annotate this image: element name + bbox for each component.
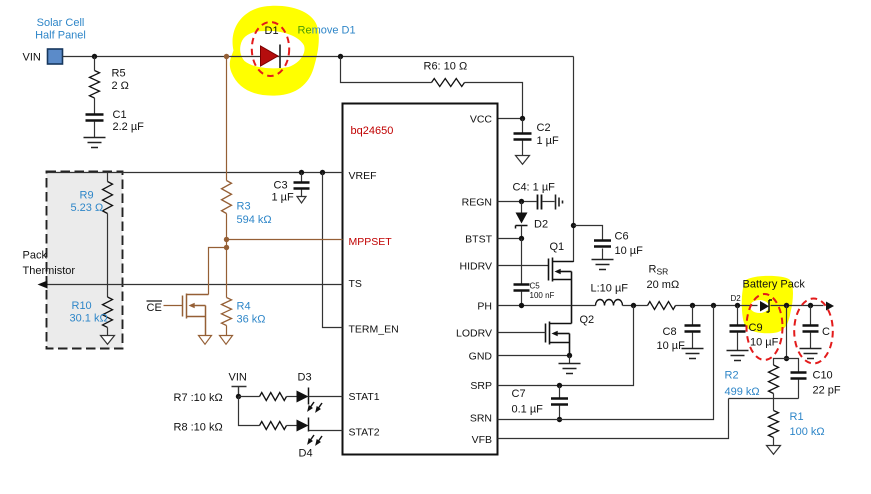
wire HIDRV pin <box>498 265 549 267</box>
capacitor C6 <box>574 226 603 241</box>
node junction dot MPPSET <box>224 237 229 242</box>
svg-text:STAT2: STAT2 <box>349 427 380 439</box>
svg-text:Solar Cell: Solar Cell <box>37 17 85 29</box>
wire TERM_EN pullup riser <box>323 173 343 328</box>
node junction dot at R3 tap (brown) <box>224 54 229 59</box>
wire VFB pin <box>498 399 729 439</box>
svg-text:LODRV: LODRV <box>456 327 492 339</box>
resistor R3 (brown) <box>226 57 228 181</box>
svg-text:Q1: Q1 <box>550 241 565 253</box>
svg-text:Pack: Pack <box>23 250 48 262</box>
svg-text:HIDRV: HIDRV <box>460 260 492 272</box>
resistor R6 <box>341 57 432 83</box>
svg-text:STAT1: STAT1 <box>349 391 380 403</box>
node junction dot battery/R2 tap <box>784 303 789 308</box>
svg-text:R4: R4 <box>237 301 251 313</box>
svg-text:30.1 kΩ: 30.1 kΩ <box>70 313 108 325</box>
node junction dot VIN stub <box>236 394 241 399</box>
capacitor C4 <box>538 195 542 210</box>
diode D2 (bootstrap) <box>521 202 523 213</box>
capacitor C8 <box>692 306 694 326</box>
wire to R4 (brown) <box>226 248 228 298</box>
svg-text:100 kΩ: 100 kΩ <box>790 426 825 438</box>
wire GND pin <box>498 355 570 357</box>
svg-text:D1: D1 <box>265 25 279 37</box>
node junction dot CE branch <box>224 245 229 250</box>
wire to CE FET drain (brown) <box>209 248 227 295</box>
svg-text:Q2: Q2 <box>580 314 595 326</box>
svg-text:R10: R10 <box>72 300 92 312</box>
resistor RSR 20 mOhm <box>648 302 676 310</box>
ground below CE FET (brown triangle) <box>199 336 212 345</box>
wire MPPSET pin (brown) <box>227 239 343 241</box>
svg-text:D2: D2 <box>731 294 742 303</box>
svg-text:L:10 µF: L:10 µF <box>591 283 629 295</box>
svg-text:C5: C5 <box>530 282 541 291</box>
capacitor C7 <box>559 386 561 399</box>
wire PH pin <box>498 305 596 307</box>
wire SRN pin <box>498 306 714 420</box>
svg-text:VREF: VREF <box>349 170 377 182</box>
wire BTST pin <box>498 238 522 240</box>
svg-text:10 µF: 10 µF <box>750 337 779 349</box>
node junction dot at R5 tap <box>92 54 97 59</box>
op-amp / IC U1 bq24650 <box>343 104 498 455</box>
resistor R9 <box>107 173 109 182</box>
node junction dot GND <box>567 353 572 358</box>
wire SRP pin <box>498 306 634 386</box>
wire diode to battery arrow <box>771 305 824 307</box>
resistor R4 (brown) <box>222 298 232 326</box>
wire TS with left arrow <box>43 284 343 286</box>
capacitor C5 <box>521 239 523 285</box>
transistor Q2 <box>546 306 572 356</box>
battery pack arrow <box>826 302 834 311</box>
node junction dot SRP tap <box>631 303 636 308</box>
svg-text:R2: R2 <box>725 370 739 382</box>
resistor R7 <box>239 396 260 398</box>
svg-text:499 kΩ: 499 kΩ <box>725 386 760 398</box>
resistor R2 <box>774 359 787 366</box>
white hole inside D1 blob <box>240 31 304 68</box>
svg-text:1 µF: 1 µF <box>537 135 560 147</box>
wire VCC pin <box>498 118 523 120</box>
capacitor C3 <box>301 173 303 183</box>
svg-text:594 kΩ: 594 kΩ <box>237 214 272 226</box>
diode D1 (to be removed) <box>261 46 279 66</box>
svg-text:R7 :10 kΩ: R7 :10 kΩ <box>174 392 223 404</box>
svg-text:D4: D4 <box>299 448 313 460</box>
wire VFB node <box>729 398 799 400</box>
svg-text:2 Ω: 2 Ω <box>112 80 129 92</box>
transistor CE FET (brown) <box>183 294 209 336</box>
node junction dot C7 bottom <box>557 417 562 422</box>
sideways ground after C4 <box>556 195 563 210</box>
svg-text:TERM_EN: TERM_EN <box>349 324 399 336</box>
svg-text:Battery Pack: Battery Pack <box>743 279 806 291</box>
svg-text:C: C <box>822 326 830 338</box>
svg-text:CE: CE <box>147 302 162 314</box>
svg-text:2.2 µF: 2.2 µF <box>113 121 145 133</box>
node junction dot PH-C5 <box>519 303 524 308</box>
wire inductor to RSR <box>623 305 648 307</box>
capacitor C9 <box>737 306 739 326</box>
node junction dot C9 tap <box>735 303 740 308</box>
svg-text:GND: GND <box>469 351 493 363</box>
transistor Q1 <box>549 258 574 306</box>
highlighter blob around battery diode / C9 <box>742 276 793 333</box>
svg-text:SRN: SRN <box>470 413 492 425</box>
svg-text:36 kΩ: 36 kΩ <box>237 314 266 326</box>
small ground triangle below C3 <box>297 197 306 204</box>
svg-text:D2: D2 <box>534 219 548 231</box>
svg-text:VCC: VCC <box>470 113 493 125</box>
svg-text:R9: R9 <box>80 190 94 202</box>
node junction dot VCC <box>520 116 525 121</box>
svg-text:C6: C6 <box>615 231 629 243</box>
svg-text:MPPSET: MPPSET <box>349 236 393 248</box>
node junction dot R2/C10 top <box>784 356 789 361</box>
CE gate wire <box>164 305 183 307</box>
svg-text:BTST: BTST <box>465 233 492 245</box>
svg-text:TS: TS <box>349 278 362 290</box>
node junction dot REGN <box>519 199 524 204</box>
node junction dot BTST <box>519 236 524 241</box>
node junction dot TERM_EN riser tap <box>320 170 325 175</box>
resistor R8 <box>239 397 260 426</box>
svg-text:10 µF: 10 µF <box>615 245 644 257</box>
LED D4 emission arrows <box>305 434 316 447</box>
svg-text:10 µF: 10 µF <box>657 340 686 352</box>
svg-text:R8 :10 kΩ: R8 :10 kΩ <box>174 422 223 434</box>
thermistor dashed box <box>47 172 123 349</box>
svg-text:C4: 1 µF: C4: 1 µF <box>513 182 556 194</box>
svg-text:VIN: VIN <box>229 372 247 384</box>
svg-text:VFB: VFB <box>472 434 492 446</box>
wire LODRV pin <box>498 332 546 334</box>
svg-text:PH: PH <box>477 300 492 312</box>
svg-text:R3: R3 <box>237 201 251 213</box>
LED D4 <box>297 420 309 432</box>
node junction dot VIN-C6 <box>571 223 576 228</box>
resistor R1 <box>773 399 775 411</box>
svg-text:20 mΩ: 20 mΩ <box>647 279 680 291</box>
resistor R10 <box>103 297 113 327</box>
svg-text:SRP: SRP <box>470 380 492 392</box>
wire REGN pin <box>498 201 537 203</box>
ground at GND pin <box>569 356 571 364</box>
svg-text:22 pF: 22 pF <box>813 385 841 397</box>
wire top rail <box>63 56 574 58</box>
node junction dot C tap <box>808 303 813 308</box>
inductor L 10uF <box>596 300 623 306</box>
svg-text:R5: R5 <box>112 68 126 80</box>
capacitor C1 <box>86 115 104 121</box>
node junction dot at R6 tap <box>338 54 343 59</box>
resistor R5 <box>94 57 96 71</box>
svg-text:D3: D3 <box>298 372 312 384</box>
svg-text:C2: C2 <box>537 122 551 134</box>
capacitor C10 <box>787 359 799 373</box>
svg-text:Half Panel: Half Panel <box>35 30 86 42</box>
wire RSR to battery diode <box>676 305 758 307</box>
svg-text:VIN: VIN <box>23 52 41 64</box>
red dashed ellipse around C9 label <box>747 294 783 360</box>
svg-text:0.1 µF: 0.1 µF <box>512 404 544 416</box>
svg-text:C8: C8 <box>663 326 677 338</box>
svg-text:bq24650: bq24650 <box>351 125 394 137</box>
svg-text:REGN: REGN <box>462 196 492 208</box>
wire VIN vertical to Q1 drain <box>573 57 575 263</box>
highlighter blob around D1 <box>230 6 319 96</box>
svg-text:C10: C10 <box>813 370 833 382</box>
wire battery node down to R2/C10 <box>786 306 788 359</box>
LED D3 emission arrows <box>305 401 316 414</box>
wire R9 to R10 <box>107 214 109 298</box>
VIN terminal square <box>48 49 63 64</box>
svg-text:Remove D1: Remove D1 <box>298 25 356 37</box>
svg-text:C1: C1 <box>113 109 127 121</box>
red dashed ellipse around D1 <box>252 22 289 76</box>
node junction dot SRN tap <box>711 303 716 308</box>
svg-text:C7: C7 <box>512 388 526 400</box>
ground below C1 <box>84 138 106 148</box>
svg-text:1 µF: 1 µF <box>272 192 295 204</box>
svg-text:Thermistor: Thermistor <box>23 265 76 277</box>
wire VREF rail <box>48 172 343 174</box>
white hole near battery diode <box>750 300 769 313</box>
node junction dot C3 tap <box>299 170 304 175</box>
LED D3 <box>297 391 309 403</box>
svg-text:5.23 Ω: 5.23 Ω <box>71 202 104 214</box>
capacitor C <box>810 306 812 326</box>
node junction dot C8 tap <box>690 303 695 308</box>
svg-text:R1: R1 <box>790 411 804 423</box>
capacitor C2 <box>522 119 524 134</box>
svg-text:100 nF: 100 nF <box>530 291 555 300</box>
red dashed ellipse around C <box>794 299 833 364</box>
svg-text:C9: C9 <box>749 322 763 334</box>
ground below C2 (open triangle) <box>516 156 530 165</box>
svg-text:C3: C3 <box>274 180 288 192</box>
node junction dot C7 top <box>557 383 562 388</box>
svg-text:R6: 10 Ω: R6: 10 Ω <box>424 61 468 73</box>
